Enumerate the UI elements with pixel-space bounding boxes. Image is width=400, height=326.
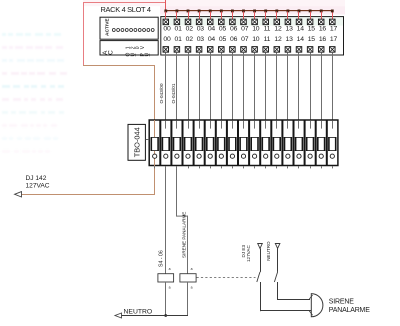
contact S4-06 box bbox=[158, 274, 174, 282]
svg-text:03: 03 bbox=[197, 36, 205, 43]
svg-text:NEUTRO: NEUTRO bbox=[124, 308, 153, 315]
text 127VAC bbox=[26, 182, 50, 189]
channel 00 group: junction, drop, terminals, labels, wire bbox=[163, 10, 171, 121]
wire label O-043/00 (rotated) bbox=[159, 83, 165, 103]
wire 127VAC feed from top of page bbox=[165, 0, 166, 11]
svg-text:15: 15 bbox=[308, 36, 316, 43]
channel 01 group: junction, drop, terminals, labels, wire bbox=[174, 10, 182, 121]
label SIRENE PANALARME (rotated, along wire) bbox=[181, 212, 186, 258]
svg-text:04: 04 bbox=[208, 36, 216, 43]
wire pole2 to siren upper bbox=[277, 299, 310, 300]
channel 11 group: junction, drop, terminals, labels, wire bbox=[263, 10, 271, 121]
channel 15 group: junction, drop, terminals, labels, wire bbox=[307, 10, 315, 121]
svg-text:O-043/00: O-043/00 bbox=[159, 83, 165, 103]
svg-text:01: 01 bbox=[175, 36, 183, 43]
label S4 - 06 (rotated) bbox=[158, 250, 164, 267]
svg-text:02: 02 bbox=[186, 36, 194, 43]
wire channel00 down to contact S4-06 bbox=[165, 168, 166, 274]
wire label O-043/01 (rotated) bbox=[171, 83, 177, 103]
terminal block cell 6 bbox=[206, 120, 217, 166]
svg-text:17: 17 bbox=[330, 26, 338, 33]
channel 10 group: junction, drop, terminals, labels, wire bbox=[252, 10, 260, 121]
svg-text:C: C bbox=[108, 50, 115, 55]
wire 127VAC bus bbox=[165, 10, 333, 19]
channel 04 group: junction, drop, terminals, labels, wire bbox=[207, 10, 215, 121]
label DJ E3 (rotated) bbox=[241, 245, 246, 258]
channel 13 group: junction, drop, terminals, labels, wire bbox=[285, 10, 293, 121]
terminal block cell 17 bbox=[328, 121, 336, 151]
svg-text:14: 14 bbox=[297, 26, 305, 33]
svg-text:11: 11 bbox=[264, 36, 271, 43]
svg-text:06: 06 bbox=[230, 26, 238, 33]
svg-text:PANALARME: PANALARME bbox=[329, 307, 370, 314]
siren horn symbol bbox=[309, 294, 323, 317]
LED indicator circles bbox=[112, 29, 154, 32]
terminal block cell 4 bbox=[184, 120, 195, 166]
channel 02 group: junction, drop, terminals, labels, wire bbox=[185, 10, 193, 121]
svg-text:O-043/01: O-043/01 bbox=[171, 83, 177, 103]
terminal block cell 9 bbox=[239, 120, 250, 166]
terminal block cell 5 bbox=[195, 120, 206, 166]
terminal block cell 10 bbox=[250, 120, 261, 166]
wire 127VAC red frame top bbox=[83, 2, 166, 3]
terminal block cell 2 bbox=[162, 120, 173, 166]
terminal block cell 3 bbox=[173, 120, 184, 166]
wire 127VAC red frame left bbox=[83, 2, 84, 66]
terminal block wire stubs below bbox=[154, 166, 333, 168]
terminal block cell 13 bbox=[284, 120, 295, 166]
svg-text:05: 05 bbox=[219, 26, 227, 33]
channel 06 group: junction, drop, terminals, labels, wire bbox=[230, 10, 238, 121]
svg-text:01: 01 bbox=[175, 26, 183, 33]
svg-text:07: 07 bbox=[241, 26, 249, 33]
text DJ 142 bbox=[26, 175, 47, 182]
svg-text:15: 15 bbox=[308, 26, 316, 33]
terminal block cell 16 bbox=[317, 120, 328, 166]
channel 14 group: junction, drop, terminals, labels, wire bbox=[296, 10, 304, 121]
svg-text:TBO-044: TBO-044 bbox=[132, 127, 141, 157]
svg-text:16: 16 bbox=[319, 26, 327, 33]
channel 17 group: junction, drop, terminals, labels, wire bbox=[330, 10, 338, 121]
svg-text:127VAC: 127VAC bbox=[26, 182, 50, 189]
contact box sirene bbox=[180, 274, 196, 282]
module type text AC 120V OUTPUT (rotated letters) bbox=[102, 45, 156, 56]
channel 16 group: junction, drop, terminals, labels, wire bbox=[318, 10, 326, 121]
wire channel01 down with jog to sirene contact bbox=[176, 168, 188, 274]
text SIRENE bbox=[329, 298, 354, 305]
terminal block cell 11 bbox=[262, 120, 273, 166]
svg-text:11: 11 bbox=[264, 26, 271, 33]
svg-text:a: a bbox=[191, 267, 193, 271]
channel 07 group: junction, drop, terminals, labels, wire bbox=[241, 10, 249, 121]
svg-text:13: 13 bbox=[286, 26, 294, 33]
svg-text:10: 10 bbox=[252, 26, 260, 33]
channel 05 group: junction, drop, terminals, labels, wire bbox=[219, 10, 227, 121]
arrow DJ 142 source bbox=[15, 192, 22, 197]
breaker pole NEUTRO bbox=[274, 244, 280, 300]
label NEUTRO (rotated) bbox=[266, 241, 271, 261]
terminal block cell 12 bbox=[273, 120, 284, 166]
svg-text:02: 02 bbox=[186, 26, 194, 33]
junction dot on neutro line bbox=[164, 314, 167, 317]
module box RACK 4 SLOT 4 (left status cell) bbox=[100, 17, 158, 39]
svg-text:13: 13 bbox=[286, 36, 294, 43]
svg-text:SIRENE: SIRENE bbox=[329, 298, 354, 305]
svg-text:06: 06 bbox=[230, 36, 238, 43]
breaker DJ E3 pole (127VAC) bbox=[257, 244, 263, 312]
svg-text:a: a bbox=[169, 285, 171, 289]
wire DJ142 through block cell 1 bbox=[154, 120, 155, 194]
svg-text:16: 16 bbox=[319, 36, 327, 43]
label 127VAC (rotated) bbox=[246, 245, 251, 262]
svg-text:17: 17 bbox=[330, 36, 338, 43]
text TBO-044 (rotated) bbox=[132, 127, 141, 157]
dashed mechanical link contact to breaker bbox=[197, 277, 256, 279]
terminal block cell 14 bbox=[295, 120, 306, 166]
svg-text:ACTIVE: ACTIVE bbox=[105, 18, 111, 36]
label box TBO-044 bbox=[128, 124, 149, 160]
channel 03 group: junction, drop, terminals, labels, wire bbox=[196, 10, 204, 121]
module terminal area box bbox=[161, 17, 344, 55]
terminal block cell 8 bbox=[228, 120, 239, 166]
label RACK 4 SLOT 4 bbox=[101, 5, 151, 14]
svg-text:a: a bbox=[169, 267, 171, 271]
terminal block cell 15 bbox=[306, 120, 317, 166]
terminal block screw circles bbox=[153, 154, 335, 158]
text PANALARME bbox=[329, 307, 370, 314]
wire DJ142 vertical upper bbox=[154, 65, 155, 120]
svg-text:V: V bbox=[140, 45, 146, 49]
svg-text:S4 - 06: S4 - 06 bbox=[158, 250, 164, 267]
svg-text:10: 10 bbox=[252, 36, 260, 43]
svg-text:12: 12 bbox=[274, 26, 282, 33]
svg-text:NEUTRO: NEUTRO bbox=[266, 241, 271, 261]
wire contact S4-06 to neutro line bbox=[165, 282, 166, 316]
svg-text:05: 05 bbox=[219, 36, 227, 43]
label ACTIVE (rotated) bbox=[105, 18, 111, 36]
terminal block cell 7 bbox=[217, 120, 228, 166]
module box lower cell (type label) bbox=[100, 41, 158, 55]
channel 12 group: junction, drop, terminals, labels, wire bbox=[274, 10, 282, 121]
svg-text:127VAC: 127VAC bbox=[246, 245, 251, 262]
terminal block cell 1 bbox=[151, 120, 162, 166]
contact S4-06 terminal marks bbox=[169, 267, 171, 290]
contact sirene terminal marks bbox=[191, 267, 193, 290]
svg-text:a: a bbox=[191, 285, 193, 289]
svg-text:14: 14 bbox=[297, 36, 305, 43]
wire DJ142 horizontal to arrow bbox=[17, 194, 156, 195]
svg-text:00: 00 bbox=[163, 36, 171, 43]
svg-text:00: 00 bbox=[163, 26, 171, 33]
wire pole1 to siren lower bbox=[260, 310, 311, 311]
svg-text:RACK 4 SLOT 4: RACK 4 SLOT 4 bbox=[101, 5, 151, 14]
svg-text:12: 12 bbox=[274, 36, 282, 43]
svg-text:SIRENE PANALARME: SIRENE PANALARME bbox=[181, 212, 186, 258]
text NEUTRO bbox=[124, 308, 153, 315]
arrow NEUTRO source bbox=[115, 313, 122, 318]
svg-text:DJ 142: DJ 142 bbox=[26, 175, 47, 182]
svg-text:T: T bbox=[150, 53, 156, 56]
wire contact sirene to neutro corner bbox=[187, 282, 188, 316]
svg-text:03: 03 bbox=[197, 26, 205, 33]
wire NEUTRO horizontal bbox=[117, 315, 188, 316]
wire DJ142 127VAC horizontal to module bbox=[83, 65, 155, 66]
terminal block TBO-044 outline bbox=[149, 120, 338, 166]
svg-text:04: 04 bbox=[208, 26, 216, 33]
svg-text:07: 07 bbox=[241, 36, 249, 43]
